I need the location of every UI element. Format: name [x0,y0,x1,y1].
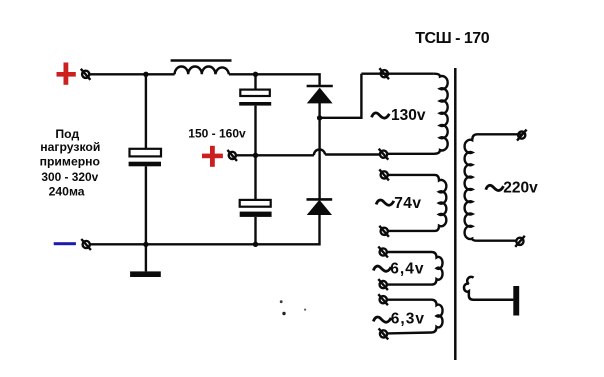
transformer core [454,68,457,360]
wire: C2 to C3 through tap [254,106,256,200]
diode D2 cathode bar [307,198,333,201]
node: rail junction at ground [143,242,148,247]
terminal T3 (150-160v tap) [227,150,237,161]
wire: junction down to C1 [145,74,147,148]
ground bar [130,271,161,277]
svg-text:примерно: примерно [40,154,100,168]
terminal 74v bottom [379,226,389,237]
speck 1 [280,300,283,303]
svg-text:6,4v: 6,4v [390,260,424,277]
terminal 6,4v bottom [378,279,388,290]
label ~6,4v tilde [373,266,391,271]
wire: inductor to D1 corner [229,74,320,85]
svg-text:Под: Под [55,127,79,141]
label ~6,3v tilde [373,317,391,322]
wire: 130v top from corner to winding [361,72,434,74]
node: junction top-left [143,72,148,77]
wire: C1 to bottom rail [145,166,147,244]
capacitor C1 top plate [130,149,162,157]
minus mark M1 (blue) [54,242,76,245]
screen bar [513,286,519,316]
terminal 74v top [379,169,389,180]
capacitor C2 bottom plate [239,102,271,106]
inductor L1 core bar [171,59,232,62]
winding 6,4v [387,252,443,285]
svg-text:300 - 320v: 300 - 320v [41,170,98,184]
capacitor C3 top plate [240,200,271,207]
wire: D1 junction down to D2 [318,118,320,199]
plus mark P1 (red) [57,63,76,85]
svg-text:240ма: 240ма [49,185,85,199]
capacitor C2 top plate [240,90,269,96]
winding 6,3v [387,300,443,334]
speck 2 [282,312,285,315]
wire: C3 to bottom rail [254,217,256,244]
ground stub [145,244,147,271]
svg-text:6,3v: 6,3v [391,310,425,327]
wire: hop to 130v bottom terminal [325,153,380,155]
terminal 130v top [379,68,389,79]
winding 220v [465,134,522,240]
capacitor C1 bottom plate [129,162,161,167]
svg-text:130v: 130v [391,107,426,124]
terminal 220v bottom [515,236,525,247]
node: tap junction [253,153,258,158]
terminal 6,3v bottom [379,328,389,339]
screen winding [464,277,513,300]
wire: T1 to inductor [90,73,175,75]
speck 3 [304,309,306,311]
capacitor C3 bottom plate [240,212,272,217]
wire: junction down to C2 [254,74,256,89]
diode D2 triangle [307,200,332,215]
wire: D1 junction right and up to 130v top [320,74,362,118]
wire hop over D1-D2 line [314,149,325,155]
terminal T2 (- output) [81,239,91,250]
svg-text:нагрузкой: нагрузкой [40,140,100,154]
plus mark P2 (red) [202,146,223,167]
svg-text:ТСШ - 170: ТСШ - 170 [415,30,489,47]
terminal T1 (+ output) [81,69,91,80]
wire: D1 anode to junction [318,102,320,118]
wire: tap terminal to hop [236,154,314,156]
node: D1 anode junction [317,115,322,120]
terminal 6,3v top [378,294,388,305]
node: junction after inductor [253,72,258,77]
label Под нагрузкой примерно 300-320v 240ма [40,127,101,198]
wire: D2 anode down to rail corner [90,214,320,245]
svg-text:74v: 74v [394,195,421,212]
inductor L1 coil [175,67,229,75]
label ~220v tilde [486,185,504,190]
node: rail junction at C3 [253,242,258,247]
terminal 220v top [517,130,527,141]
label ~130v tilde [372,113,390,118]
diode D1 triangle [307,88,333,104]
terminal 130v bottom [379,149,389,160]
winding 130v [387,74,447,154]
diode D1 cathode bar [307,85,333,88]
svg-text:220v: 220v [503,180,538,197]
label ~74v tilde [376,200,394,205]
winding 74v [388,175,446,231]
terminal 6,4v top [378,247,388,258]
svg-text:150 - 160v: 150 - 160v [188,127,246,141]
